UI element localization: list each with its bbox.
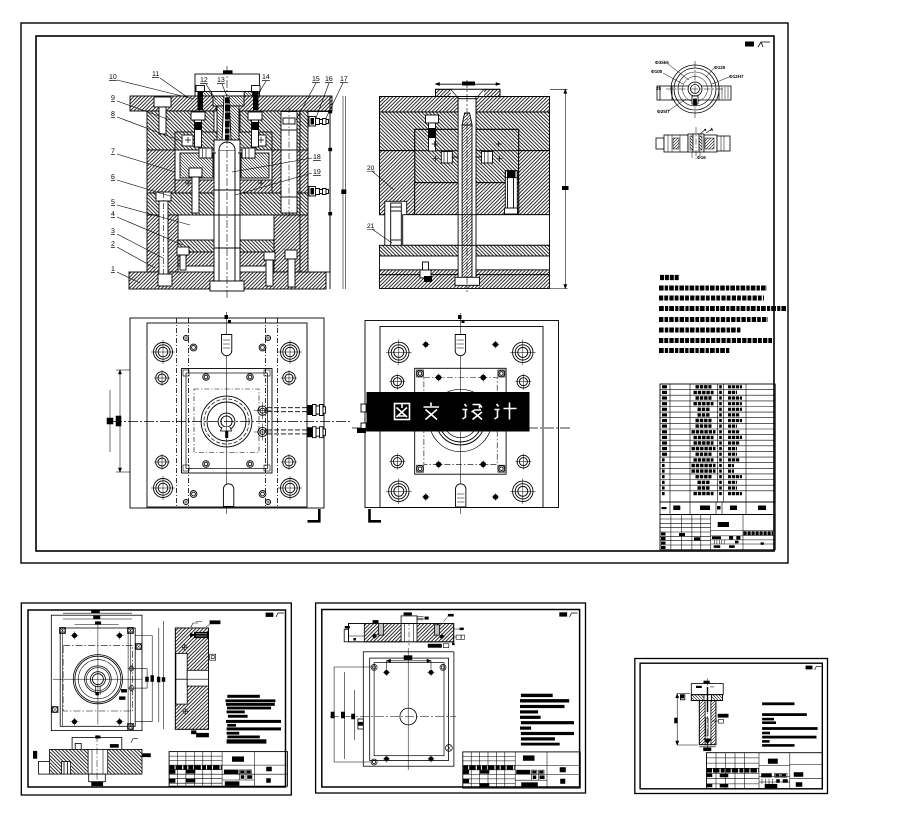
- ejector space v2: [403, 215, 550, 246]
- svg-text:Φ12H7: Φ12H7: [729, 74, 744, 79]
- bottom bolt left: [158, 274, 172, 286]
- return pin TL p2: [389, 374, 405, 390]
- s2 dash frame: [63, 645, 133, 711]
- cavity insert left: [180, 153, 213, 178]
- svg-text:19: 19: [313, 169, 321, 176]
- s2 notes bars: [226, 695, 282, 744]
- guide bushing BL p2: [386, 479, 412, 505]
- s3 right bolt: [435, 625, 445, 640]
- main sheet outer border: [21, 23, 788, 563]
- plan view 2 (fixed half top view): [352, 313, 570, 523]
- dim below: [697, 155, 706, 160]
- detail view: sprue bush side: [656, 127, 730, 160]
- s2 lower section view: [33, 735, 150, 786]
- bottom bolt v2: [420, 262, 432, 282]
- watermark black box: [367, 392, 530, 432]
- notes line 3: [659, 306, 786, 311]
- svg-text:7: 7: [111, 148, 115, 155]
- s4 notes bars: [762, 702, 818, 746]
- svg-text:3: 3: [111, 228, 115, 235]
- guide bushing BL: [151, 476, 175, 500]
- label 2: [111, 241, 155, 268]
- cavity cross marks: [185, 137, 264, 186]
- s3 centerlines: [407, 648, 409, 770]
- main sheet inner border: [36, 36, 774, 551]
- s3 below bar mark: [428, 644, 442, 648]
- s3 bolt dots: [383, 669, 435, 763]
- notes heading: [660, 275, 679, 280]
- tiny screw T2: [265, 335, 271, 341]
- s3 notes bars: [520, 694, 574, 746]
- return pin TR p2: [515, 374, 531, 390]
- center rings p2: [429, 389, 491, 451]
- s4 right leader: [718, 714, 728, 717]
- label 14: [256, 74, 270, 98]
- bottom slot: [223, 484, 233, 507]
- s3 center hole: [400, 708, 417, 725]
- glyph she: [463, 404, 483, 420]
- view1: main mold section view: [129, 66, 346, 300]
- s3 left tab: [358, 719, 363, 729]
- cross marks v2: [432, 141, 503, 162]
- top slot: [222, 315, 232, 356]
- label 16: [316, 76, 333, 118]
- B plate v2: [380, 151, 550, 215]
- ejector bolt left: [177, 247, 189, 270]
- return pin TR: [281, 370, 297, 386]
- s4 bottom dim: [699, 747, 716, 751]
- notes line 1: [659, 286, 767, 291]
- view1 leader labels left: [109, 71, 348, 283]
- return pin BL p2: [389, 454, 405, 470]
- guide bushing TL p2: [386, 340, 412, 366]
- insert frame inner: [186, 373, 268, 469]
- bottom bolt right: [285, 250, 297, 287]
- side screw 16: [309, 117, 329, 127]
- nozzle fitting 1: [254, 402, 326, 419]
- return pin TL: [154, 370, 170, 386]
- svg-text:10: 10: [109, 74, 117, 81]
- view2: side section view: [380, 80, 569, 292]
- s4 left dim: [675, 694, 699, 745]
- bolt in A plate v2: [426, 115, 439, 151]
- s2 top screw: [191, 632, 209, 637]
- nozzle fitting 2: [254, 424, 326, 441]
- svg-text:4: 4: [111, 211, 115, 218]
- s2 leader text blobs: [122, 690, 127, 693]
- plate outline p2: [365, 321, 559, 508]
- stem centerline: [466, 80, 468, 292]
- A plate right strip: [300, 111, 308, 150]
- label 8: [111, 111, 181, 141]
- right dim strip: [341, 96, 346, 289]
- s3 top section bar: [348, 620, 453, 645]
- BOM row marks: [662, 385, 742, 495]
- sheet2 outer border: [21, 603, 291, 795]
- return pin BR p2: [515, 454, 531, 470]
- ring circles: [671, 65, 719, 113]
- return pin BL: [154, 454, 170, 470]
- bottom clamp plate: [129, 272, 326, 289]
- s2 finish mark small: [191, 622, 202, 628]
- label 19: [235, 169, 321, 195]
- notes line 7: [659, 348, 730, 353]
- notes line 5: [659, 328, 741, 333]
- white band v2: [380, 256, 550, 270]
- frame corner blocks p2: [417, 370, 424, 377]
- s3 left end tab: [344, 626, 356, 642]
- tiny screw T1: [183, 335, 189, 341]
- guide bushing TL: [151, 340, 175, 364]
- s3 boss above: [401, 612, 429, 623]
- technical notes: [659, 278, 786, 351]
- label 18: [232, 154, 321, 172]
- core side screws: [199, 148, 255, 158]
- frame corner blocks: [183, 370, 189, 376]
- s4 T-part top head: [691, 681, 723, 695]
- thin plate v2: [380, 270, 550, 275]
- svg-text:15: 15: [312, 76, 320, 83]
- svg-text:18: 18: [313, 154, 321, 161]
- top clamp plate: [130, 96, 332, 111]
- svg-text:6: 6: [111, 174, 115, 181]
- guide pillar left: [156, 192, 171, 281]
- guide bushing BR: [278, 476, 302, 500]
- s2 section view body: [175, 628, 208, 729]
- s2 bolt dots: [71, 632, 124, 726]
- s3 top dim: [387, 656, 432, 669]
- svg-text:12: 12: [200, 77, 208, 84]
- bolt B2: [191, 112, 205, 147]
- svg-text:17: 17: [340, 76, 348, 83]
- top slot p2: [455, 315, 465, 356]
- top clamp plate v2: [380, 97, 550, 113]
- frame corner screws: [203, 374, 210, 381]
- glyph tu: [395, 404, 410, 420]
- s4 stem: [699, 701, 716, 745]
- small screws p2: [422, 341, 499, 501]
- svg-text:16: 16: [325, 76, 333, 83]
- svg-text:Φ100: Φ100: [651, 69, 663, 74]
- section mark L right: [308, 509, 321, 523]
- insert block v2: [415, 129, 519, 182]
- leader texts: [651, 60, 744, 114]
- bolt B4: [189, 168, 202, 213]
- inner plate outline p2: [380, 327, 543, 508]
- top dim v2: [436, 83, 501, 86]
- label 12: [200, 77, 216, 100]
- arrows above: [700, 129, 712, 134]
- label 7: [111, 148, 175, 172]
- svg-text:5: 5: [111, 199, 115, 206]
- small screw T1: [190, 344, 197, 351]
- sheet2 bottom-left drawing: [21, 603, 291, 795]
- label 10: [109, 74, 194, 99]
- bolt B1: [154, 97, 171, 134]
- core sleeve: [214, 140, 240, 281]
- A plate v2: [380, 112, 550, 151]
- hub keyhole: [688, 82, 702, 105]
- label 15: [296, 76, 320, 120]
- BOM parts table: [660, 384, 775, 502]
- svg-text:8: 8: [111, 111, 115, 118]
- svg-text:Φ16: Φ16: [697, 155, 706, 160]
- s4 T-part flange: [691, 695, 722, 701]
- corner screw rings p2: [417, 370, 424, 377]
- cavity insert right: [241, 153, 269, 178]
- guide pillar right: [281, 107, 297, 217]
- ring screw right: [252, 86, 261, 111]
- inner plate outline: [147, 323, 307, 507]
- sprue bush: [213, 96, 244, 140]
- side tab right: [719, 86, 731, 100]
- spacer block right: [274, 215, 300, 272]
- support plate: [147, 193, 300, 215]
- insert frame inner p2: [424, 378, 497, 465]
- center stem v2: [455, 99, 480, 286]
- return pin BR: [281, 454, 297, 470]
- left cap: [656, 138, 664, 149]
- label 6: [111, 174, 170, 196]
- label 1: [111, 266, 140, 283]
- side tab left: [657, 86, 672, 100]
- notes line 2: [659, 296, 764, 301]
- center block: [688, 134, 704, 152]
- s3 left screw: [372, 620, 384, 639]
- sheet4 finish mark: [806, 666, 821, 670]
- label 13: [217, 77, 230, 104]
- insert frame: [175, 132, 272, 193]
- insert frame p2: [415, 368, 506, 474]
- label 4: [111, 211, 183, 245]
- s2 plan view outline: [51, 615, 142, 730]
- svg-text:Φ120: Φ120: [714, 65, 726, 70]
- sheet3 finish mark: [560, 613, 578, 617]
- s2 dim lines top: [63, 610, 132, 624]
- plate outline: [130, 318, 324, 508]
- BOM header row: [660, 502, 775, 515]
- s2 right dim lines: [135, 621, 165, 729]
- A plate: [147, 111, 300, 150]
- guide bushing TR: [278, 340, 302, 364]
- section mark L left: [369, 509, 382, 523]
- ring screw left: [196, 86, 205, 111]
- svg-text:14: 14: [262, 74, 270, 81]
- notes line 4: [659, 317, 768, 322]
- svg-text:11: 11: [152, 71, 159, 78]
- s2 body screws: [182, 644, 190, 715]
- centerline v: [226, 312, 228, 514]
- s4 title block: [707, 753, 823, 789]
- center line vertical: [226, 66, 228, 300]
- sheet2 finish mark: [266, 613, 284, 617]
- right white panel: [308, 112, 330, 273]
- left tabs p2: [361, 404, 366, 412]
- s2 plan inner plate: [60, 628, 135, 726]
- frame edge screws p2: [435, 374, 488, 469]
- B plate right strip: [300, 150, 308, 193]
- side screws v2: [441, 152, 492, 164]
- bottom slot p2: [456, 484, 466, 507]
- guide bushing BR p2: [510, 479, 536, 505]
- ejector retainer v2: [380, 245, 550, 256]
- sprue plate: [436, 82, 501, 99]
- sheet4 outer border: [635, 659, 828, 794]
- s3 corner screws: [371, 664, 452, 765]
- support plate right strip: [300, 193, 308, 215]
- s2 crosshair: [97, 621, 99, 725]
- sheet3 outer border: [316, 603, 586, 793]
- spacer block left: [147, 215, 178, 272]
- small screw B1: [190, 491, 197, 498]
- guide bolt 20: [390, 203, 403, 272]
- ejector retainer plate: [178, 240, 274, 252]
- bar lines: [672, 85, 719, 87]
- body right: [704, 135, 717, 152]
- s4 centerline: [707, 679, 709, 750]
- label 20: [367, 165, 394, 190]
- s3 left dims: [331, 667, 371, 762]
- sheet4 bottom-right drawing: [635, 659, 828, 794]
- centerlines detail: [694, 61, 696, 118]
- label 5: [111, 199, 190, 225]
- centerline: [695, 127, 697, 159]
- right bolt v2: [505, 171, 518, 214]
- label 17: [326, 76, 348, 118]
- right cap: [717, 136, 730, 151]
- s2 right small screws: [128, 665, 147, 692]
- bottom clamp v2: [380, 275, 550, 289]
- s4 center pin line: [707, 687, 709, 712]
- s2 title block: [169, 752, 287, 787]
- sheet3 inner border: [322, 610, 580, 788]
- glyph wen: [424, 403, 440, 420]
- tiny screw B1: [183, 499, 189, 505]
- ejector base plate: [178, 252, 274, 266]
- B plate: [147, 150, 300, 193]
- body left: [664, 135, 688, 152]
- s2 bottom marks: [192, 731, 197, 734]
- tiny screw B2: [265, 499, 271, 505]
- svg-text:13: 13: [217, 77, 225, 84]
- surface finish mark top right: [745, 42, 770, 48]
- spacer right strip: [300, 215, 308, 272]
- s4 left label box: [680, 695, 684, 700]
- svg-text:Φ25f7: Φ25f7: [657, 109, 670, 114]
- sheet2 inner border: [28, 610, 286, 787]
- locating ring: [195, 70, 259, 97]
- svg-text:1: 1: [111, 266, 115, 273]
- guide bushing TR p2: [510, 340, 536, 366]
- side screw 17: [309, 187, 329, 197]
- svg-text:9: 9: [111, 95, 115, 102]
- plan view 1 (moving half top view): [107, 312, 350, 523]
- svg-text:Φ35k6: Φ35k6: [655, 60, 669, 65]
- label 3: [111, 228, 163, 258]
- label 11: [152, 71, 187, 97]
- s2 inner verticals: [63, 628, 131, 726]
- small screw T2: [259, 344, 266, 351]
- s3 plan view: [363, 652, 454, 766]
- s3 title block: [463, 752, 581, 788]
- left wall window: [385, 201, 407, 248]
- right dim v2: [550, 89, 569, 288]
- centerline v p2: [459, 313, 461, 514]
- s2 tolerance box: [210, 654, 216, 660]
- label 21: [367, 223, 392, 243]
- s2 corner marks: [52, 628, 142, 730]
- core foot: [210, 281, 244, 291]
- sheet4 inner border: [640, 663, 822, 789]
- center rings: [201, 396, 252, 447]
- rail hidden lines left: [177, 318, 278, 508]
- svg-text:25: 25: [656, 86, 662, 91]
- bolt B3: [248, 112, 262, 147]
- label 9: [111, 95, 170, 120]
- mold right edge line: [328, 96, 332, 289]
- small screw B2: [259, 491, 266, 498]
- centerline h: [112, 421, 350, 423]
- sheet3 bottom-middle drawing: [316, 603, 586, 793]
- svg-text:2: 2: [111, 241, 115, 248]
- detail view: locating ring front: [651, 60, 744, 118]
- bottom bolt mid: [264, 252, 275, 286]
- s2 center rings: [73, 655, 122, 704]
- s3 right marks: [444, 614, 465, 645]
- notes line 6: [659, 338, 772, 343]
- insert frame: [182, 369, 273, 474]
- left dim bracket: [107, 370, 130, 472]
- centerline h p2: [352, 427, 570, 429]
- title block main: [660, 515, 775, 550]
- glyph ji: [495, 403, 517, 420]
